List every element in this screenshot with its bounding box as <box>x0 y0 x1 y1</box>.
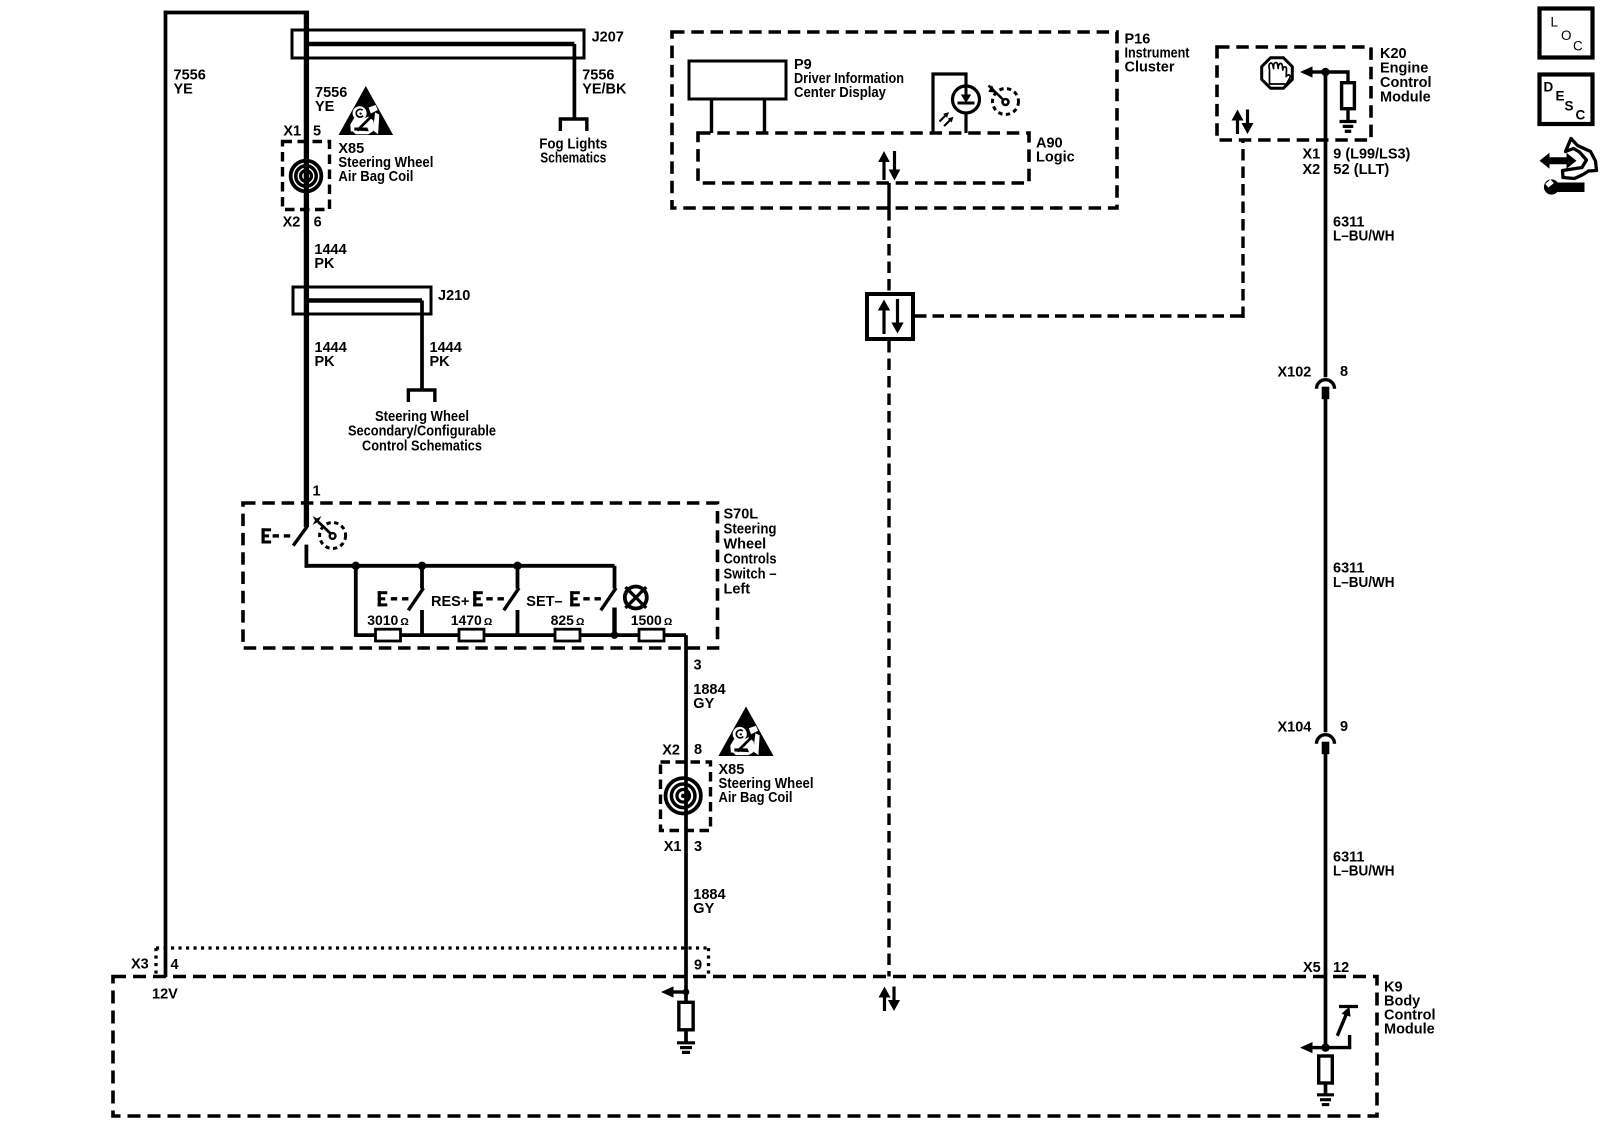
svg-text:D: D <box>1544 80 1554 95</box>
svg-text:9: 9 <box>1340 719 1348 735</box>
svg-text:5: 5 <box>313 123 321 139</box>
svg-text:8: 8 <box>694 742 702 758</box>
svg-text:PK: PK <box>430 354 451 370</box>
svg-text:4: 4 <box>171 957 179 973</box>
svg-text:1: 1 <box>313 484 321 500</box>
svg-text:X1: X1 <box>664 839 682 855</box>
svg-text:52 (LLT): 52 (LLT) <box>1333 162 1389 178</box>
svg-text:3: 3 <box>694 658 702 674</box>
svg-text:X2: X2 <box>1303 162 1321 178</box>
svg-text:Air Bag Coil: Air Bag Coil <box>338 169 413 185</box>
svg-text:SET–: SET– <box>526 594 562 610</box>
svg-text:Air Bag Coil: Air Bag Coil <box>719 790 793 806</box>
svg-text:X2: X2 <box>283 215 301 231</box>
svg-text:3: 3 <box>694 839 702 855</box>
svg-text:E: E <box>1556 89 1565 104</box>
svg-text:X104: X104 <box>1278 720 1312 736</box>
svg-text:Switch –: Switch – <box>724 567 777 583</box>
svg-text:Left: Left <box>724 582 751 598</box>
svg-text:YE: YE <box>174 82 194 98</box>
svg-text:C: C <box>1576 108 1586 123</box>
svg-text:RES+: RES+ <box>431 594 469 610</box>
svg-text:X1: X1 <box>1303 147 1321 163</box>
svg-text:L–BU/WH: L–BU/WH <box>1333 575 1395 591</box>
svg-text:Control Schematics: Control Schematics <box>362 439 482 455</box>
svg-text:X2: X2 <box>662 742 680 758</box>
svg-text:Schematics: Schematics <box>540 151 606 167</box>
svg-text:PK: PK <box>314 256 335 272</box>
svg-text:GY: GY <box>693 696 714 712</box>
svg-text:Secondary/Configurable: Secondary/Configurable <box>348 424 496 440</box>
svg-text:8: 8 <box>1340 364 1348 380</box>
svg-text:Logic: Logic <box>1036 150 1075 166</box>
svg-text:C: C <box>1573 39 1583 54</box>
svg-text:Wheel: Wheel <box>724 537 767 553</box>
svg-text:YE/BK: YE/BK <box>582 82 627 98</box>
svg-text:9: 9 <box>694 958 702 974</box>
svg-text:PK: PK <box>315 354 336 370</box>
svg-text:X3: X3 <box>131 957 149 973</box>
svg-text:X1: X1 <box>283 123 301 139</box>
svg-text:6: 6 <box>314 215 322 231</box>
svg-text:Controls: Controls <box>724 552 777 568</box>
svg-text:12: 12 <box>1333 960 1349 976</box>
svg-text:Module: Module <box>1384 1022 1435 1038</box>
svg-text:L–BU/WH: L–BU/WH <box>1333 229 1395 245</box>
svg-text:Cluster: Cluster <box>1125 60 1175 76</box>
svg-text:L–BU/WH: L–BU/WH <box>1333 864 1395 880</box>
svg-text:YE: YE <box>315 99 335 115</box>
svg-text:X102: X102 <box>1278 365 1312 381</box>
svg-text:9 (L99/LS3): 9 (L99/LS3) <box>1333 147 1410 163</box>
svg-text:O: O <box>1561 28 1572 43</box>
svg-text:S: S <box>1565 99 1574 114</box>
svg-text:Module: Module <box>1380 90 1431 106</box>
svg-text:L: L <box>1551 15 1559 30</box>
svg-text:Steering: Steering <box>724 522 777 538</box>
svg-text:12V: 12V <box>152 987 178 1003</box>
svg-text:J207: J207 <box>592 30 624 46</box>
svg-text:S70L: S70L <box>724 507 759 523</box>
svg-text:J210: J210 <box>438 288 470 304</box>
svg-text:X5: X5 <box>1303 960 1321 976</box>
svg-text:Center Display: Center Display <box>794 85 886 101</box>
svg-text:GY: GY <box>693 901 714 917</box>
svg-text:Steering Wheel: Steering Wheel <box>375 409 469 425</box>
